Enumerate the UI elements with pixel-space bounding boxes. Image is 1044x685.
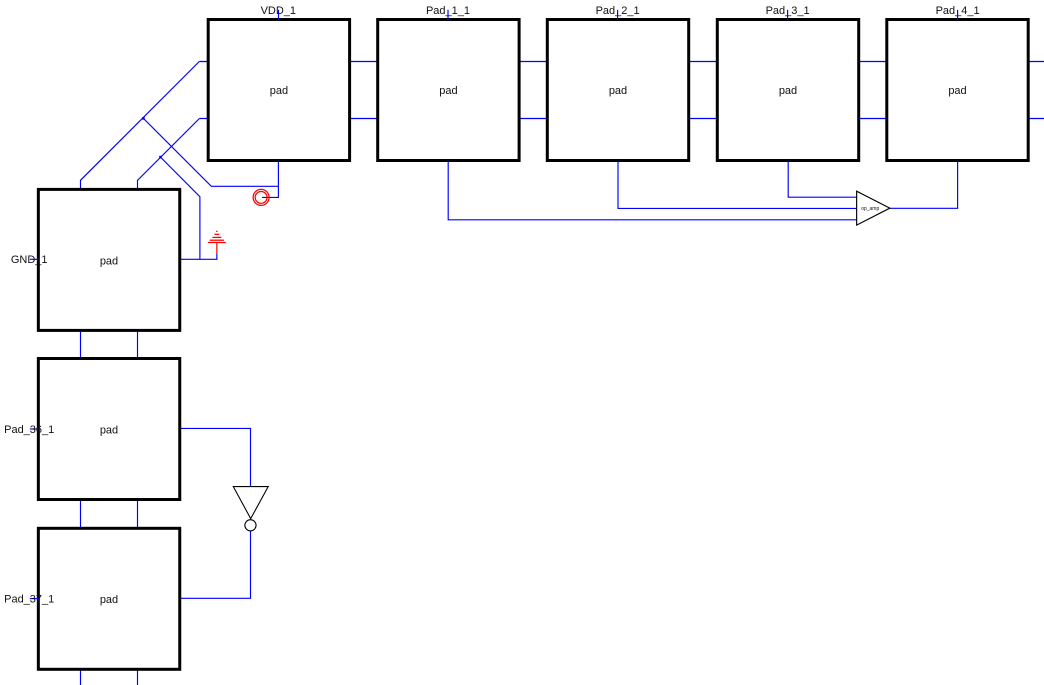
svg-text:VDD_1: VDD_1 [261,5,296,17]
svg-text:Pad_2_1: Pad_2_1 [596,5,640,17]
svg-text:Pad_36_1: Pad_36_1 [4,424,54,436]
svg-text:pad: pad [100,424,118,436]
svg-text:pad: pad [948,85,966,97]
svg-text:pad: pad [439,85,457,97]
svg-text:Pad_4_1: Pad_4_1 [936,5,980,17]
svg-text:pad: pad [100,594,118,606]
svg-text:Pad_1_1: Pad_1_1 [426,5,470,17]
svg-text:op_amp: op_amp [861,206,879,212]
svg-text:Pad_3_1: Pad_3_1 [766,5,810,17]
svg-text:Pad_37_1: Pad_37_1 [4,594,54,606]
svg-text:pad: pad [100,255,118,267]
svg-text:pad: pad [270,85,288,97]
svg-text:pad: pad [779,85,797,97]
svg-text:pad: pad [609,85,627,97]
svg-text:GND_1: GND_1 [11,254,48,266]
